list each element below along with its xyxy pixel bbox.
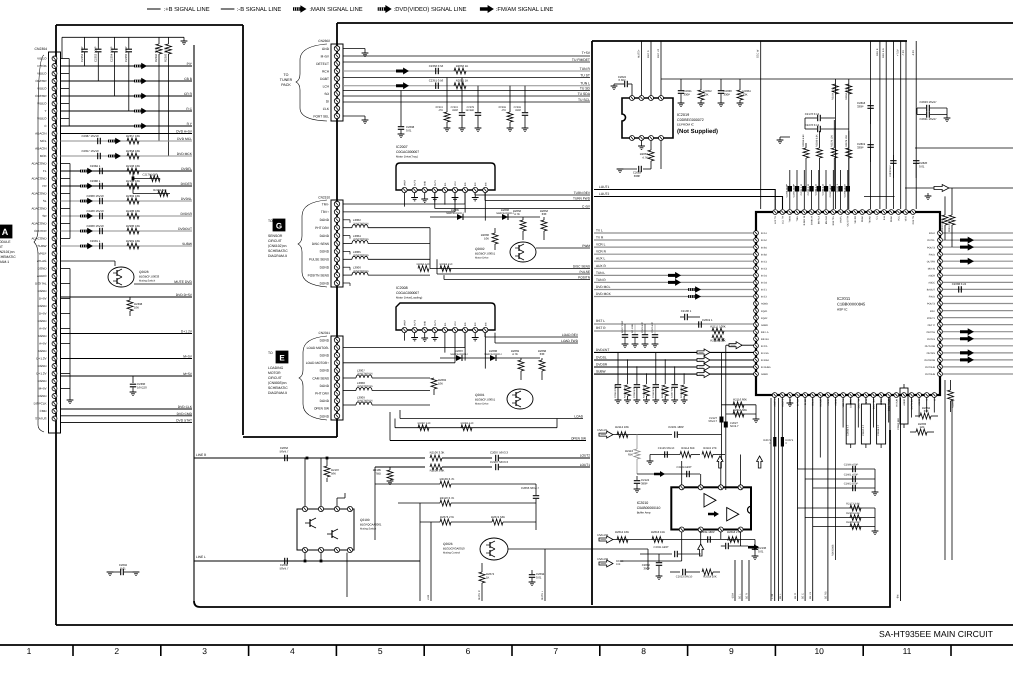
svg-text:DGBT: DGBT (320, 77, 329, 81)
svg-text:IN E2: IN E2 (761, 296, 768, 299)
svg-text:BN-FLA: BN-FLA (818, 216, 821, 225)
svg-text:C2268 47P: C2268 47P (633, 387, 636, 398)
svg-text:LCH: LCH (323, 84, 330, 88)
svg-text:FIN K: FIN K (929, 232, 936, 235)
arrow on TUN L input (668, 272, 681, 279)
capacitor C2838 (892, 155, 894, 160)
resistor R2117 100K (712, 328, 724, 334)
svg-text:AGND: AGND (903, 399, 906, 406)
svg-text:DGND: DGND (320, 338, 330, 342)
CN2304 pin 26 SUBW (52, 244, 57, 249)
wire output row OUTLSW (gray) (943, 345, 1013, 347)
brace for CN2310 (298, 200, 327, 287)
svg-text:ADACGND: ADACGND (31, 162, 47, 166)
svg-text:POSITN: POSITN (578, 276, 591, 280)
ground join for cap rows (874, 469, 876, 492)
svg-text:EEPROM IC: EEPROM IC (677, 123, 695, 127)
svg-text:10K: 10K (134, 306, 139, 310)
arrow on TUN R input (668, 279, 681, 286)
svg-text:OC/GTTR: OC/GTTR (847, 216, 850, 227)
resistor R2594 4.7K vertical (948, 390, 954, 401)
svg-text:DGND: DGND (38, 267, 48, 271)
wire POSITN out (443, 275, 445, 279)
svg-text:STATUS: STATUS (35, 417, 46, 421)
ground for DGND bus (69, 396, 71, 400)
svg-text::FM/AM SIGNAL LINE: :FM/AM SIGNAL LINE (496, 6, 554, 13)
vertical wires through bottom border (774, 398, 776, 602)
svg-text:IN SUB: IN SUB (819, 399, 822, 407)
transistor array Q2100 muting switch (297, 509, 354, 550)
svg-text:M6RCKA000014: M6RCKA000014 (496, 212, 514, 215)
svg-text:6: 6 (466, 646, 471, 656)
capacitor C2350 0.56 (435, 68, 437, 74)
CN2304 pin 27 VREF (52, 251, 57, 256)
arrow on DVD MCK (108, 153, 121, 159)
svg-text:R2..100K: R2..100K (631, 323, 634, 333)
svg-text:DVDCNT: DVDCNT (596, 348, 609, 352)
resistor R2114 65K (680, 452, 691, 458)
svg-text:JUNC000016: JUNC000016 (357, 400, 373, 403)
resistor R2366 (158, 37, 160, 44)
resistor R2286 6.8K (816, 148, 822, 158)
svg-text:PEAK: PEAK (890, 216, 893, 223)
svg-text:C2130 1: C2130 1 (681, 309, 692, 313)
svg-text:ASE B: ASE B (876, 48, 879, 56)
svg-text:VDD TC: VDD TC (842, 399, 845, 408)
IC2011 top pin 8 (824, 210, 829, 215)
IC2011 right pin OUTRSW (938, 358, 943, 363)
svg-text:GND: GND (424, 321, 427, 326)
svg-text:IN CB: IN CB (804, 399, 807, 406)
IC2011 right pin OUTFL (938, 238, 943, 243)
CN2304 pin 29 DGND (52, 266, 57, 271)
wire input AUX L (gray) (594, 260, 754, 262)
inductor L3008 JUNC000016 (343, 390, 356, 392)
svg-text:VCC: VCC (454, 321, 457, 326)
svg-text:TO: TO (268, 351, 273, 355)
capacitor C2178 100P subnet (132, 171, 134, 178)
svg-text:LOUT2: LOUT2 (599, 192, 610, 196)
svg-text:R2366 5.6K: R2366 5.6K (154, 47, 158, 62)
CN2310 pin 7 DGND (334, 249, 339, 254)
resistor R2110 3.7K row (398, 502, 440, 504)
signal boundary bus line x=194 (193, 45, 195, 601)
IC2019 top pin 2 (639, 96, 644, 101)
wire output row POUT3 (gray) (943, 303, 1013, 305)
wire IC2019 pin2 up (641, 41, 643, 96)
capacitor C2030 (720, 79, 722, 90)
svg-text:OUTFL: OUTFL (927, 239, 936, 242)
svg-text:CN2310: CN2310 (318, 196, 330, 200)
IC2011 bottom pin 12 (856, 393, 861, 398)
svg-text:Muting Switch: Muting Switch (360, 528, 377, 531)
CN2304 pin 47 DISPCLK (52, 401, 57, 406)
svg-text:CLK: CLK (323, 107, 330, 111)
IC2011 bottom pin 4 (795, 393, 800, 398)
IC2011 right pin FIN I (938, 308, 943, 313)
svg-text:Q2026: Q2026 (443, 542, 453, 546)
resistor row R2301 6.8K (805, 517, 875, 519)
svg-text:C2124 180P: C2124 180P (677, 466, 692, 469)
wire R2097/R2096 row (395, 427, 557, 429)
svg-text:R2301 6.8K: R2301 6.8K (846, 512, 860, 515)
svg-text:C2900 16V10: C2900 16V10 (86, 224, 104, 228)
capacitor C2608 0.22 on BAOUT row (958, 286, 960, 292)
IC2007 pin 2 (412, 187, 417, 192)
svg-text:+7.5V: +7.5V (897, 49, 900, 56)
svg-text:R2182 56K: R2182 56K (153, 189, 167, 192)
capacitor C2021A 16V47 (926, 111, 928, 117)
wire rail y=79 (661, 78, 1013, 80)
capacitor C2352 (84, 37, 86, 48)
svg-text:D2007: D2007 (455, 349, 464, 353)
svg-text:C2838 56V: C2838 56V (889, 165, 892, 177)
wire DVD MCL (gray signal) (61, 140, 193, 142)
capacitor C2022 0.022 with ground (631, 84, 633, 96)
wire video signal CR R (61, 95, 193, 97)
svg-text:R2108 3.3K: R2108 3.3K (430, 469, 445, 473)
svg-text:R2097 120: R2097 120 (418, 422, 431, 425)
svg-text:LC2 TU: LC2 TU (774, 216, 777, 224)
wires from IC2008 pins down (404, 333, 406, 341)
ground stub for CN2302 GND pin (343, 48, 365, 50)
capacitor C2267 (674, 366, 676, 384)
capacitor C2354 (114, 37, 116, 48)
wire jog LOUT (594, 202, 600, 204)
svg-text:AGND: AGND (761, 303, 768, 306)
wire top rail of capacitor bank (62, 36, 184, 38)
op-amp triangle 2 (727, 508, 739, 521)
wire input TUN L (gray) (594, 274, 754, 276)
wire DVD D+5V (61, 296, 193, 298)
svg-text:LINE L: LINE L (196, 555, 206, 559)
arrow FM/AM at top right (934, 185, 949, 192)
svg-text:Motor Drive(Loading): Motor Drive(Loading) (396, 296, 422, 300)
svg-text:DVD A+5V: DVD A+5V (176, 130, 193, 134)
IC2008 pin 5 (442, 327, 447, 332)
svg-text:-8M: -8M (897, 595, 900, 599)
svg-text:R2365 5.6K: R2365 5.6K (164, 47, 168, 62)
svg-text:C1BB00000845: C1BB00000845 (837, 302, 866, 307)
svg-text:16V680: 16V680 (465, 109, 474, 112)
svg-text:4.7K: 4.7K (512, 352, 518, 356)
wire DISC SENS out (430, 268, 590, 270)
svg-text:CIRCUIT: CIRCUIT (268, 376, 282, 380)
IC2011 bottom pin 22 (932, 393, 937, 398)
CN2304 pin 21 ADACGND (52, 206, 57, 211)
svg-text:C2034 180P: C2034 180P (699, 530, 715, 534)
capacitor blobs above IC2011 top pins (789, 170, 791, 209)
wire output row FIN D (gray) (943, 295, 1013, 297)
svg-text:47K: 47K (439, 109, 444, 112)
svg-text:0.01: 0.01 (919, 165, 925, 169)
diode D2008 (475, 357, 540, 359)
IC2011 top pin 10 (838, 210, 843, 215)
resistor R2056 330 vertical (541, 220, 547, 231)
svg-text:HI W: HI W (865, 398, 868, 404)
wire vertical x=721.5 upper (721, 352, 723, 405)
svg-text:DGND: DGND (320, 399, 330, 403)
svg-text:MIX IN: MIX IN (928, 267, 936, 270)
junction dots on LINE L row (304, 560, 307, 563)
svg-text:M+5V: M+5V (39, 387, 47, 391)
wire C+5V (435, 208, 590, 210)
svg-text:C2354 100P: C2354 100P (110, 46, 114, 62)
IC2011 left pin DGND (754, 336, 759, 341)
svg-text:CN2304: CN2304 (35, 47, 48, 51)
svg-text:DI: DI (326, 99, 329, 103)
CN2310 pin 9 DGND (334, 265, 339, 270)
DGND bus (69, 269, 71, 397)
svg-text:SL: SL (43, 199, 47, 203)
wire output row FIN I (gray) (943, 310, 1013, 312)
CN2304 pin 30 AUDIO (52, 274, 57, 279)
resistor R2184 1B (832, 84, 838, 94)
svg-text:PHT DRV: PHT DRV (315, 392, 330, 396)
svg-text:R2358 10K: R2358 10K (126, 149, 140, 153)
AGND bus (69, 164, 71, 239)
IC2007 pin 7 (463, 187, 468, 192)
svg-text:DISC SENS: DISC SENS (312, 242, 329, 246)
resistor R2012 10K (617, 537, 628, 543)
svg-text:VCR R: VCR R (596, 250, 607, 254)
svg-text:16V220: 16V220 (137, 386, 147, 390)
svg-text:C2269 3300P: C2269 3300P (614, 384, 617, 398)
svg-text:C0GAG000007: C0GAG000007 (396, 291, 419, 295)
svg-text:DVD CLK: DVD CLK (178, 405, 193, 409)
IC2011 left pin DGND (754, 365, 759, 370)
svg-text:LOUT1: LOUT1 (580, 463, 591, 467)
svg-text:TV L: TV L (596, 229, 603, 233)
capacitor C2021 (680, 79, 682, 90)
IC2011 top pin 1 (773, 210, 778, 215)
capacitor C2136 0.01 with ground (754, 540, 756, 547)
svg-text:DVDSL: DVDSL (181, 197, 192, 201)
svg-text:C2282 0.12: C2282 0.12 (807, 183, 810, 195)
svg-text:ADACGND: ADACGND (31, 207, 47, 211)
arrow on DVD MCL (108, 138, 121, 144)
svg-text:0.022: 0.022 (619, 78, 626, 82)
svg-text:0.01: 0.01 (406, 129, 412, 133)
resistor R2109 3.7K row (375, 483, 440, 485)
svg-text:R2110 3.7K: R2110 3.7K (440, 496, 455, 500)
svg-text:330P: 330P (724, 93, 731, 97)
arrow on output OUTRSW (960, 356, 974, 363)
svg-text:ACOT1: ACOT1 (774, 398, 777, 406)
svg-text:SUBW: SUBW (38, 244, 47, 248)
svg-text:R2276 10K: R2276 10K (830, 135, 833, 147)
resistor R2072 0 (jumper) (773, 437, 776, 447)
svg-text:330P: 330P (684, 93, 691, 97)
svg-text:A: A (2, 227, 9, 237)
IC2011 right pin OUTFR (938, 259, 943, 264)
arrow on CR R line (134, 93, 147, 99)
legend -B signal line (221, 8, 235, 10)
IC2011 bottom pin 5 (803, 393, 808, 398)
capacitor row C2602 470P (813, 487, 875, 489)
wire output row FIN K (gray) (943, 232, 1013, 234)
diode D2005 (430, 216, 470, 218)
svg-text:3: 3 (202, 646, 207, 656)
svg-text:C2066 50V4.7: C2066 50V4.7 (521, 486, 539, 490)
resistor R2116 60K (722, 404, 757, 406)
wire DVD STAT (61, 422, 193, 424)
CN2304 pin 24 CENTER (52, 229, 57, 234)
IC2011 left pin DGND (754, 308, 759, 313)
long verticals x=740,751 (740, 426, 742, 487)
IC2011 bottom pin 11 (848, 393, 853, 398)
svg-text:Motor Drive(Tray): Motor Drive(Tray) (396, 155, 418, 159)
svg-text:R2401 6.8K: R2401 6.8K (846, 521, 860, 524)
IC2011 left pin DGND (754, 358, 759, 363)
brace for CN2311 (299, 336, 327, 420)
svg-text:SO: SO (324, 92, 329, 96)
CN2310 pin 3 DGND (334, 217, 339, 222)
svg-text:OUT1: OUT1 (434, 179, 437, 186)
svg-text:GRAM-1: GRAM-1 (0, 260, 9, 264)
svg-text:B1GDCFGA0010: B1GDCFGA0010 (443, 547, 465, 551)
svg-text:RST L: RST L (596, 319, 605, 323)
resistor R2063 4.7K (650, 141, 652, 151)
ruler tick 10 (862, 645, 864, 656)
wire T+5V (343, 55, 590, 57)
svg-text:C2175 47P: C2175 47P (651, 322, 654, 333)
CN2302 pin 2 M+5V (334, 53, 339, 58)
svg-text:TO: TO (284, 73, 289, 77)
electrolytic capacitor C2582 (900, 388, 908, 424)
svg-text:330P: 330P (452, 109, 458, 112)
svg-text:LOAD FWD: LOAD FWD (561, 339, 579, 343)
svg-text:AGND: AGND (918, 399, 921, 406)
CN2304 pin 7 VIDEO (52, 101, 57, 106)
svg-text:C2357 16V10: C2357 16V10 (81, 149, 99, 153)
CN2310 pin 2 TRV+ (334, 209, 339, 214)
wire IC2019 pin8 down (660, 141, 662, 170)
svg-text:BE LS: BE LS (809, 592, 812, 599)
svg-text:M+5V: M+5V (321, 54, 330, 58)
wire video signal CB B (61, 80, 193, 82)
capacitor C2033 56V10 (670, 571, 680, 573)
wire x=900.5 long vertical (900, 398, 902, 602)
svg-text:INF RA: INF RA (761, 338, 769, 341)
svg-text:R2112 10K: R2112 10K (615, 425, 629, 429)
IC2007 pin 6 (452, 187, 457, 192)
IC2010 buffer amp body (671, 487, 751, 529)
svg-text:AGND: AGND (835, 399, 838, 406)
CN2310 pin 8 PULSE SENS (334, 257, 339, 262)
svg-text:390P: 390P (643, 567, 650, 571)
svg-text:DIGITAL: DIGITAL (35, 282, 47, 286)
ruler tick 5 (423, 645, 425, 656)
wire TU FM/DET (343, 61, 590, 63)
svg-text::MAIN SIGNAL LINE: :MAIN SIGNAL LINE (309, 6, 362, 13)
resistor R2097 120 (418, 425, 429, 431)
wire output row OUTSUB (gray) (943, 366, 1013, 368)
resistor R2068 330 vertical (539, 360, 545, 371)
svg-text:DGND: DGND (320, 218, 330, 222)
capacitor C2900 (99, 228, 101, 234)
svg-text:C2300 16V10: C2300 16V10 (86, 194, 104, 198)
arrow on output POUT3 (960, 244, 974, 251)
svg-text:CB B: CB B (184, 77, 192, 81)
wire M+5V lower (61, 375, 193, 377)
IC2011 left pin DGND (754, 329, 759, 334)
IC2011 bottom pin 16 (886, 393, 891, 398)
svg-text:-15M: -15M (732, 593, 735, 599)
CN2302 pin 8 DI (334, 98, 339, 103)
svg-text:LOAD: LOAD (574, 415, 583, 419)
svg-text:R2118 100K: R2118 100K (710, 339, 725, 343)
svg-text:OUTLS: OUTLS (927, 338, 935, 341)
CN2304 pin 36 DGND (52, 319, 57, 324)
inductor L3009 JUNC000016 (343, 404, 356, 406)
resistor row R2173 3.9K (798, 507, 876, 509)
svg-text:C2283 0.12: C2283 0.12 (814, 183, 817, 195)
svg-text:PORT SEL: PORT SEL (313, 114, 329, 118)
svg-text:Q2001: Q2001 (475, 393, 485, 397)
svg-text:ASCR: ASCR (928, 275, 935, 278)
legend fm/am signal line arrow (480, 5, 494, 13)
svg-text:DGND: DGND (320, 384, 330, 388)
svg-text:C2386 1: C2386 1 (90, 179, 101, 183)
CN2311 pin 1 DGND (334, 337, 339, 342)
ruler tick 2 (160, 645, 162, 656)
CN2304 pin 41 D+1.2V (52, 356, 57, 361)
svg-text:CN2302: CN2302 (318, 39, 330, 43)
wire input VCR R (gray) (594, 253, 754, 255)
svg-text:DGND: DGND (38, 304, 48, 308)
wire row y=474 with arrow (637, 473, 700, 475)
svg-text:ADACGND: ADACGND (31, 237, 47, 241)
svg-text:Motor Drive: Motor Drive (475, 257, 489, 260)
ruler tick 11 (950, 645, 952, 656)
svg-text:DGND: DGND (38, 319, 48, 323)
IC2011 bottom pin 9 (833, 393, 838, 398)
CN2304 pin 20 SL (52, 199, 57, 204)
IC2008 body (396, 303, 495, 330)
ground left of resistor group (780, 136, 790, 138)
svg-text:VREF: VREF (404, 319, 407, 326)
IC2019 bottom pin 7 (649, 136, 654, 141)
svg-text:C2352 100P: C2352 100P (80, 46, 84, 62)
svg-text:Muting Control: Muting Control (443, 552, 460, 555)
IC2011 top pin 14 (867, 210, 872, 215)
IC2011 bottom pin 14 (871, 393, 876, 398)
IC2011 left pin DGND (754, 280, 759, 285)
svg-text:FL: FL (43, 169, 47, 173)
ruler tick 8 (687, 645, 689, 656)
svg-text:56V4.7: 56V4.7 (280, 450, 289, 454)
svg-text:POSITN SENS: POSITN SENS (308, 273, 329, 277)
IC2011 bottom pin 8 (826, 393, 831, 398)
svg-text:TU ST: TU ST (580, 74, 590, 78)
capacitor C2124 180P (686, 471, 688, 477)
capacitor C2386 (99, 183, 101, 189)
svg-text:M6RCKA000014: M6RCKA000014 (484, 353, 502, 356)
left module box border (56, 24, 243, 26)
ground at y=196 rail (864, 195, 895, 197)
svg-text:C2486 4.7: C2486 4.7 (847, 424, 850, 436)
svg-text:C2387 16V10: C2387 16V10 (81, 134, 99, 138)
svg-text:IN SUBA: IN SUBA (761, 366, 771, 369)
wire verticals right below IC (944, 380, 946, 560)
CN2304 pin 5 VIDEO (52, 86, 57, 91)
resistor R2276 10K (831, 148, 837, 158)
wire VREF/ZFLAG junction (61, 260, 116, 262)
wire IC2019 pin4 up (660, 41, 662, 96)
svg-text:R2184 1B: R2184 1B (831, 89, 834, 100)
svg-text:M+5V: M+5V (183, 355, 193, 359)
